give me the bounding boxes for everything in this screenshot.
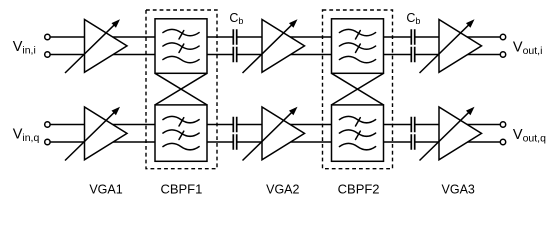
svg-text:CBPF2: CBPF2 xyxy=(338,182,380,197)
svg-text:VGA3: VGA3 xyxy=(442,183,475,197)
svg-text:VGA2: VGA2 xyxy=(266,183,299,197)
svg-text:CBPF1: CBPF1 xyxy=(160,182,202,197)
svg-text:VGA1: VGA1 xyxy=(89,183,122,197)
